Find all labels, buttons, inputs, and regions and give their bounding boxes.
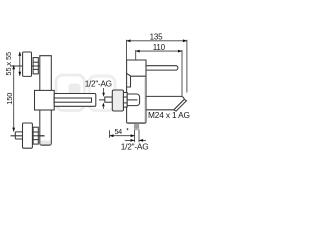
body bottom emphasis (128, 122, 145, 124)
watermark letter 1 inner blob (69, 84, 81, 104)
dimension 55x55 (19, 52, 21, 76)
column bottom emphasis (41, 144, 51, 146)
svg-text:135: 135 (150, 32, 163, 41)
watermark letter 2 outline (89, 76, 115, 111)
body neck detail line (127, 73, 131, 87)
watermark letter 1 outline (56, 75, 85, 111)
lever handle (146, 66, 178, 70)
dimension 54 (110, 130, 135, 143)
bottom outlet stub gray (134, 124, 139, 129)
bottom hex nut (33, 127, 38, 144)
escutcheon plate (112, 90, 123, 111)
body column (40, 56, 52, 146)
small mark below body corner (127, 128, 128, 130)
mid block (35, 90, 55, 110)
dimension 150 (13, 65, 15, 131)
spout tube side (54, 94, 96, 107)
spout inner line (54, 98, 91, 102)
dimension 1/2"-AG bottom (125, 130, 146, 143)
fitting center line (100, 99, 138, 101)
bottom union center line (11, 135, 44, 137)
svg-text:M24 x 1 AG: M24 x 1 AG (148, 110, 190, 120)
aerator band (174, 99, 187, 111)
svg-text:1/2"-AG: 1/2"-AG (121, 141, 149, 151)
top union center line (11, 65, 47, 67)
svg-text:54: 54 (114, 127, 122, 136)
hex nut (123, 93, 127, 108)
svg-text:55 x 55: 55 x 55 (4, 52, 13, 76)
top hex nut (33, 58, 38, 74)
bottom escutcheon (23, 123, 33, 148)
column bottom shading (41, 141, 51, 145)
top escutcheon (23, 52, 32, 76)
cap joint line (131, 75, 147, 77)
bottom wall stub (15, 132, 22, 139)
spout profile with 45deg cut (146, 96, 184, 109)
left fitting of right view (100, 90, 140, 111)
wall stub (105, 97, 113, 102)
dimension 110 (136, 50, 182, 97)
dimension 135 (127, 40, 187, 93)
svg-text:150: 150 (5, 93, 14, 105)
svg-text:110: 110 (153, 43, 166, 52)
svg-text:1/2"-AG: 1/2"-AG (85, 80, 112, 89)
body shading line (144, 78, 146, 123)
nipple (127, 94, 139, 106)
faucet body (127, 60, 187, 123)
